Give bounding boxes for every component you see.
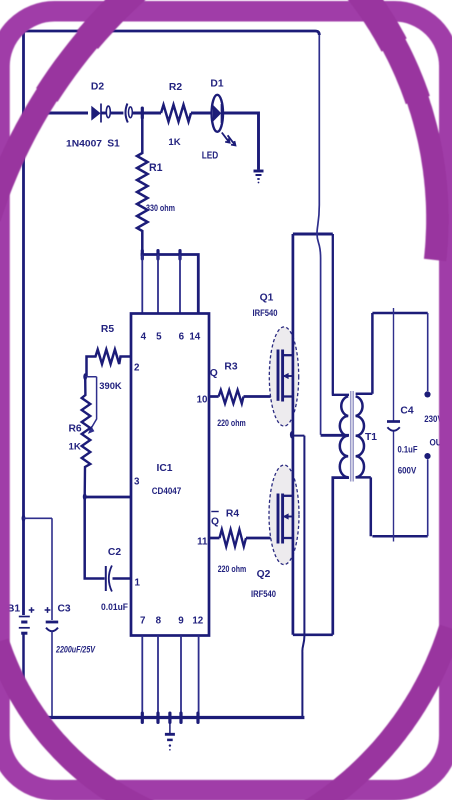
transistor Q1 IRF540 <box>269 327 298 426</box>
wire S1 to R2 <box>132 112 161 115</box>
capacitor C3 polarized <box>45 607 59 717</box>
inner swoosh arc top-left <box>0 0 138 218</box>
resistor R5 <box>87 350 132 377</box>
wire R2 to D1 <box>191 112 212 115</box>
battery B1 <box>19 607 35 717</box>
svg-text:R3: R3 <box>224 362 237 373</box>
wire secondary bottom <box>356 477 371 536</box>
svg-text:IRF540: IRF540 <box>253 308 278 318</box>
diode D2 <box>91 104 101 123</box>
svg-text:5: 5 <box>156 332 162 343</box>
resistor R3 <box>219 390 244 404</box>
svg-text:R6: R6 <box>69 424 82 435</box>
node R5 R6 junction <box>83 373 87 380</box>
svg-text:0.1uF: 0.1uF <box>398 445 418 455</box>
transformer T1 core <box>351 391 354 482</box>
wire ground bottom rail <box>24 716 305 719</box>
resistor R2 <box>161 105 191 122</box>
svg-text:R5: R5 <box>101 324 114 335</box>
svg-text:Q2: Q2 <box>257 569 271 580</box>
svg-text:1N4007: 1N4007 <box>66 139 102 149</box>
svg-text:3: 3 <box>134 477 140 488</box>
wire Q1 drain-source vertical <box>292 234 295 435</box>
wire tap to C3 <box>24 518 53 620</box>
svg-text:2200uF/25V: 2200uF/25V <box>55 645 96 655</box>
svg-text:Q: Q <box>210 368 218 379</box>
node mid rail junctions <box>141 249 144 261</box>
wire pin 11 to R4 <box>209 537 220 540</box>
svg-text:1: 1 <box>135 578 141 589</box>
svg-text:14: 14 <box>189 332 200 343</box>
wire R4 to Q2 gate <box>246 537 277 540</box>
svg-text:Q: Q <box>211 517 219 528</box>
switch S1 contact <box>106 106 110 118</box>
inner swoosh arc bottom-left <box>0 642 151 800</box>
ground symbol bottom <box>165 718 175 751</box>
wire primary bottom feed <box>293 478 349 635</box>
wire sources to ground with hop <box>293 436 305 718</box>
svg-text:D1: D1 <box>210 79 223 90</box>
node Q1 source junction <box>290 431 294 438</box>
svg-text:7: 7 <box>140 616 146 627</box>
svg-text:R1: R1 <box>149 162 163 174</box>
wire output top rail <box>372 312 427 315</box>
wire D2 to S1 <box>101 112 106 115</box>
svg-text:390K: 390K <box>99 380 122 391</box>
node output terminal top <box>427 313 429 391</box>
wire R3 to Q1 gate <box>244 395 277 398</box>
wire C2 to pin 1 <box>113 577 132 580</box>
wire D2 input chain y=113 <box>24 112 89 115</box>
inner swoosh arc bottom-right <box>308 628 450 800</box>
node bottom rail junctions <box>141 712 144 725</box>
node R1 tap junction <box>141 107 144 120</box>
svg-text:CD4047: CD4047 <box>152 486 182 497</box>
svg-text:R2: R2 <box>169 82 182 93</box>
capacitor C4 <box>387 308 400 542</box>
wire B+ supply drop with hop <box>317 35 321 435</box>
wire center tap <box>321 434 349 437</box>
wire output bottom rail <box>372 535 427 538</box>
wire rail to IC pins 4 5 6 <box>142 255 180 314</box>
wire Q2 vertical lead <box>292 435 295 635</box>
wire B+ top border and left rail <box>24 31 320 615</box>
svg-text:IRF540: IRF540 <box>251 589 276 599</box>
svg-text:220 ohm: 220 ohm <box>218 564 247 574</box>
svg-text:9: 9 <box>178 616 184 627</box>
svg-text:1K: 1K <box>168 137 180 148</box>
svg-text:8: 8 <box>156 616 162 627</box>
wire junction to pin 3 <box>85 496 131 499</box>
svg-text:0.01uF: 0.01uF <box>101 602 128 612</box>
svg-text:C3: C3 <box>58 604 71 615</box>
ground at LED <box>254 171 264 183</box>
capacitor C2 <box>105 566 107 591</box>
wire primary top feed <box>332 234 349 395</box>
svg-text:IC1: IC1 <box>156 463 172 474</box>
resistor R1 <box>137 113 148 255</box>
svg-text:Q1: Q1 <box>260 293 274 304</box>
LED D1 <box>212 95 236 146</box>
wire drain top rail <box>293 232 333 235</box>
svg-text:C4: C4 <box>400 406 413 417</box>
wire VDD mid rail <box>141 255 199 314</box>
resistor R6 variable <box>82 377 91 497</box>
svg-text:10: 10 <box>197 395 208 406</box>
svg-text:C2: C2 <box>108 547 121 558</box>
svg-text:12: 12 <box>192 616 203 627</box>
svg-text:LED: LED <box>202 151 219 162</box>
svg-text:R4: R4 <box>226 509 239 520</box>
svg-text:220 ohm: 220 ohm <box>217 418 246 428</box>
wire pin 10 to R3 <box>209 395 219 398</box>
svg-text:6: 6 <box>179 332 185 343</box>
wire S1 gap <box>111 112 124 115</box>
inner swoosh arc top-right <box>357 0 438 260</box>
transistor Q2 IRF540 <box>269 465 299 565</box>
op IC1 CD4047 box <box>131 314 209 636</box>
svg-text:330 ohm: 330 ohm <box>146 203 175 213</box>
svg-text:D2: D2 <box>91 82 104 93</box>
wire D1 to ground <box>223 113 259 170</box>
wire R6 wiper arm <box>85 377 97 429</box>
wire down to C2 <box>85 497 105 579</box>
svg-text:S1: S1 <box>107 139 120 150</box>
svg-text:1K: 1K <box>69 442 81 453</box>
wire IC pins 7 8 9 12 to rail <box>142 636 198 718</box>
wire secondary top <box>356 313 373 394</box>
svg-text:4: 4 <box>141 332 147 343</box>
node C3 tap on left rail <box>22 515 26 522</box>
svg-text:T1: T1 <box>365 432 377 443</box>
svg-text:11: 11 <box>197 537 208 548</box>
node pin3 junction <box>83 493 87 500</box>
svg-text:2: 2 <box>134 363 140 374</box>
transformer T1 secondary <box>356 396 364 477</box>
switch S1 blade <box>125 104 127 123</box>
svg-text:600V: 600V <box>398 466 417 476</box>
transformer T1 primary <box>340 396 348 477</box>
resistor R4 <box>220 530 247 547</box>
node output terminal bottom <box>427 459 429 536</box>
